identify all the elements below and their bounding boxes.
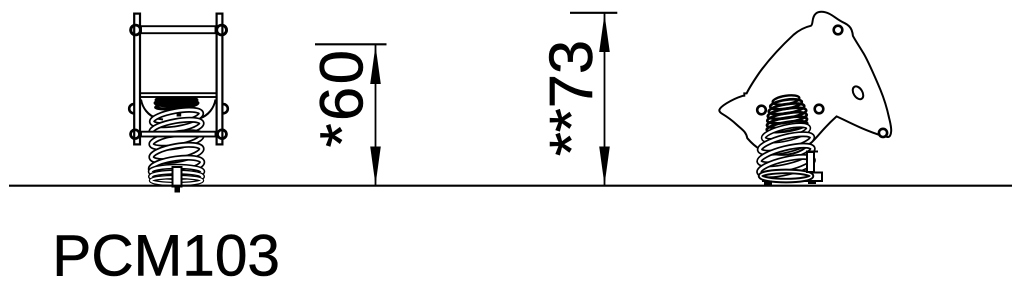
svg-text:*60: *60 <box>308 48 377 148</box>
svg-text:PCM103: PCM103 <box>52 224 280 289</box>
svg-text:**73: **73 <box>537 40 606 156</box>
